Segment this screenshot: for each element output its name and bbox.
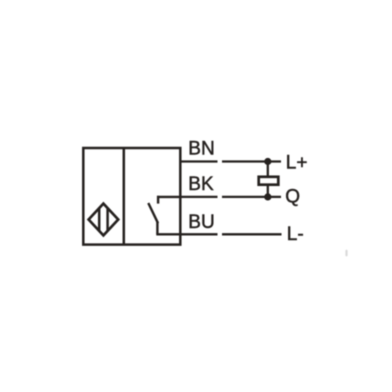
load vertical wire [267, 162, 269, 197]
inductive sensor symbol (diamond) [89, 204, 119, 236]
svg-text:BN: BN [188, 138, 214, 159]
sensor body outline [83, 148, 180, 245]
svg-text:BU: BU [188, 212, 214, 233]
svg-text:BK: BK [188, 174, 214, 195]
svg-text:L-: L- [287, 224, 304, 245]
faint print artifact [345, 250, 347, 257]
svg-text:L+: L+ [286, 152, 308, 173]
junction node on BN wire [264, 158, 271, 165]
wire BN [181, 160, 281, 162]
junction node on Q wire [264, 193, 271, 200]
switch (output contact) [148, 196, 180, 235]
load resistor box [259, 177, 279, 185]
wire BU [181, 233, 281, 235]
wire BK [181, 196, 281, 198]
svg-text:Q: Q [285, 186, 300, 207]
sensor body divider [123, 148, 126, 245]
